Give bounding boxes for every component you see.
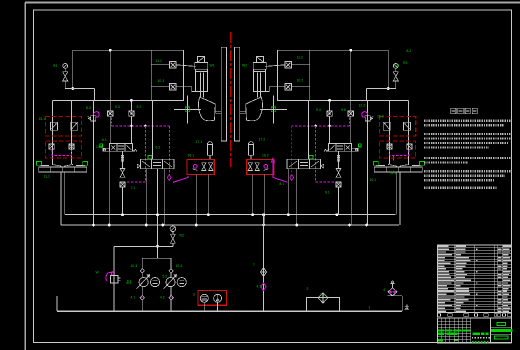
svg-text:6.1: 6.1 [102,138,107,142]
svg-text:12.2: 12.2 [359,104,366,108]
svg-text:5.1: 5.1 [127,280,132,284]
svg-text:W1: W1 [210,64,215,68]
svg-text:R2: R2 [180,234,184,238]
svg-text:2.1: 2.1 [320,293,325,297]
svg-text:7: 7 [253,263,255,267]
svg-text:17.1: 17.1 [196,140,203,144]
svg-text:10.1: 10.1 [158,79,165,83]
svg-text:2: 2 [307,287,309,291]
svg-text:10.1: 10.1 [370,178,377,182]
svg-text:15.2: 15.2 [377,115,384,119]
svg-text:5.2: 5.2 [163,275,168,279]
svg-text:9.3: 9.3 [115,105,120,109]
svg-text:11.2: 11.2 [390,171,396,175]
svg-text:3: 3 [193,293,195,297]
svg-text:13.1: 13.1 [96,145,103,149]
svg-text:9.6: 9.6 [341,108,346,112]
svg-text:9.2: 9.2 [137,105,142,109]
svg-text:11.1: 11.1 [44,175,50,179]
svg-text:11.1: 11.1 [156,59,162,63]
svg-text:4.1: 4.1 [131,296,136,300]
svg-text:R2: R2 [395,64,399,68]
svg-text:16.2: 16.2 [262,154,269,158]
svg-text:7.1: 7.1 [131,186,136,190]
svg-text:6.2: 6.2 [156,146,161,150]
svg-text:10.3: 10.3 [131,264,138,268]
svg-text:11.2: 11.2 [297,56,303,60]
svg-text:R3: R3 [403,61,407,65]
svg-text:R1: R1 [53,64,57,68]
svg-text:1: 1 [369,306,371,310]
svg-text:10.4: 10.4 [176,264,183,268]
svg-text:10.2: 10.2 [297,79,304,83]
svg-text:8.3: 8.3 [86,106,91,110]
svg-text:8.1: 8.1 [280,182,285,186]
svg-text:W2: W2 [242,64,247,68]
svg-text:9.1: 9.1 [325,191,330,195]
svg-text:16.1: 16.1 [188,154,195,158]
svg-text:8.2: 8.2 [407,49,412,53]
svg-text:6: 6 [384,288,386,292]
svg-text:9.4: 9.4 [316,108,321,112]
svg-text:15.1: 15.1 [39,117,46,121]
svg-text:4.2: 4.2 [160,296,165,300]
svg-text:4.3: 4.3 [257,285,262,289]
svg-text:17.2: 17.2 [259,138,266,142]
